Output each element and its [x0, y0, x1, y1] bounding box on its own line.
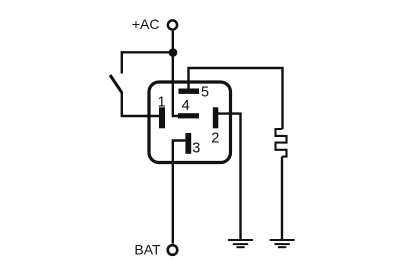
svg-text:BAT: BAT	[134, 241, 161, 257]
svg-text:3: 3	[192, 141, 200, 157]
pin 3	[185, 133, 191, 154]
pin 1	[159, 107, 165, 128]
svg-text:1: 1	[158, 94, 166, 110]
wire resistor to ground	[281, 157, 283, 240]
terminal +AC	[168, 20, 177, 29]
wire pin 3 to BAT	[173, 141, 186, 244]
switch S1 blade	[110, 75, 122, 93]
wire pin 5 to resistor	[189, 68, 283, 129]
svg-text:+AC: +AC	[132, 16, 160, 32]
pin 2	[213, 107, 219, 128]
wire pin 2 to ground	[218, 114, 241, 240]
svg-text:4: 4	[182, 98, 190, 114]
resistor R1 (square-wave symbol)	[276, 129, 287, 157]
junction node	[169, 48, 178, 57]
wire switch to pin 1	[122, 92, 159, 116]
pin 4	[178, 113, 199, 118]
wire +AC down to pin 4	[173, 31, 179, 116]
pin 5	[179, 89, 200, 94]
ground GND2 (right)	[270, 240, 295, 247]
wire junction to switch	[122, 52, 173, 73]
svg-text:5: 5	[201, 85, 209, 101]
terminal BAT	[168, 245, 178, 255]
ground GND1 (left)	[228, 240, 253, 247]
svg-text:2: 2	[211, 131, 219, 147]
relay K1 outline	[149, 82, 231, 163]
